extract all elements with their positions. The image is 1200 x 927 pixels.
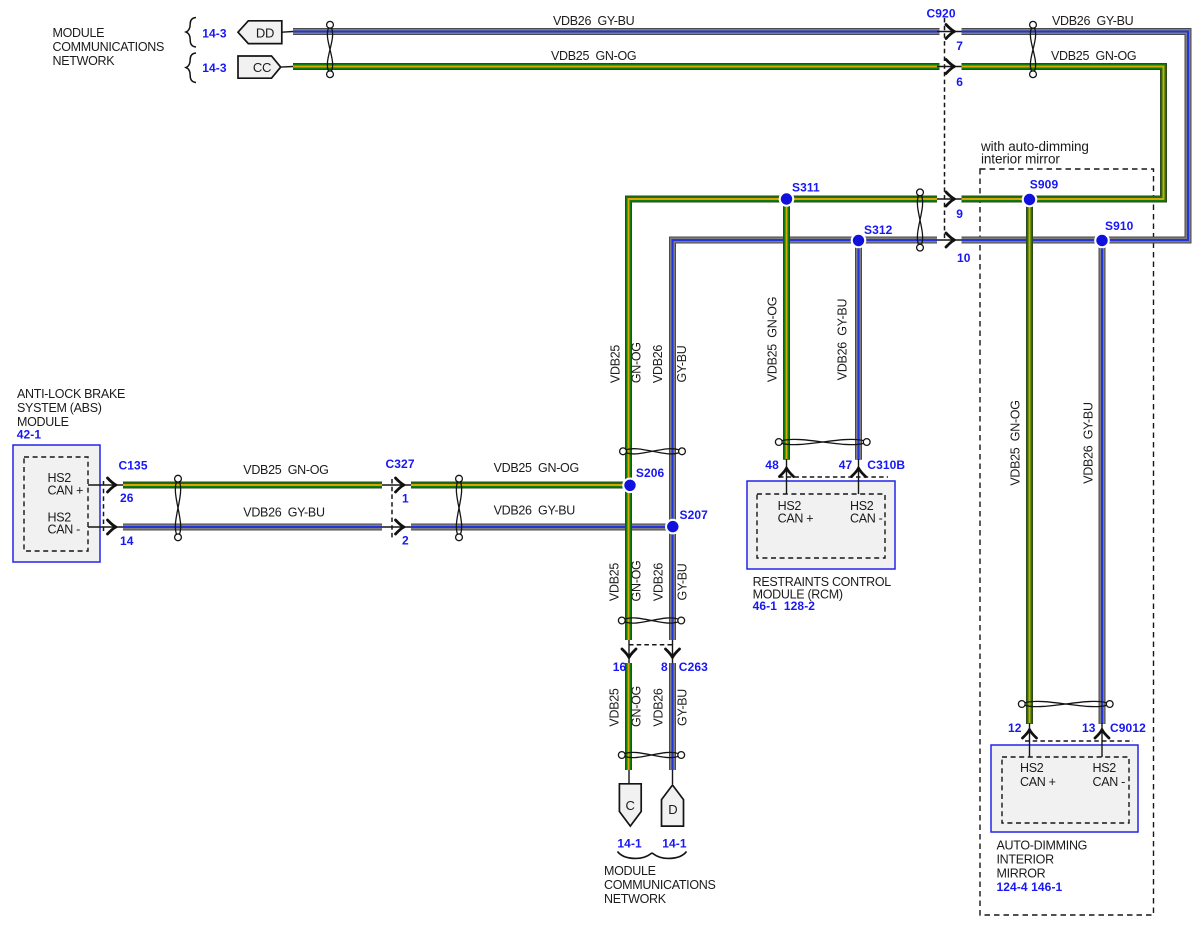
svg-text:C: C (625, 798, 634, 813)
svg-text:HS2: HS2 (1020, 761, 1044, 775)
svg-text:C327: C327 (386, 457, 415, 471)
svg-text:C9012: C9012 (1110, 721, 1146, 735)
svg-text:S206: S206 (636, 466, 665, 480)
wire lead ABS pin 14 (88, 526, 123, 528)
svg-text:CAN -: CAN - (48, 523, 81, 537)
svg-text:C920: C920 (927, 7, 956, 21)
svg-text:D: D (668, 802, 677, 817)
svg-text:14: 14 (120, 534, 134, 548)
svg-text:124-4 146-1: 124-4 146-1 (997, 880, 1063, 894)
svg-text:42-1: 42-1 (17, 427, 42, 441)
text MODULE COMMUNICATIONS NETWORK (bottom) (604, 864, 716, 906)
svg-text:NETWORK: NETWORK (53, 54, 116, 68)
twist C135 pair (175, 475, 182, 540)
arrow C327 pin 1 (396, 478, 405, 492)
text HS2 CAN + (mirror) (1020, 761, 1056, 789)
brace lower 14-3 (186, 53, 196, 83)
text HS2 CAN - (RCM) (850, 499, 883, 526)
svg-text:VDB25 GN-OG: VDB25 GN-OG (243, 463, 328, 477)
svg-text:14-1: 14-1 (662, 836, 687, 850)
arrow RCM pin 48 (up) (780, 468, 794, 477)
brace upper 14-3 (186, 18, 196, 48)
wire lead C327 pin 2 (382, 526, 411, 528)
svg-text:47: 47 (839, 458, 853, 472)
wire lead connector D (672, 770, 674, 784)
svg-text:CAN +: CAN + (1020, 775, 1056, 789)
text AUTO-DIMMING INTERIOR MIRROR (997, 839, 1088, 881)
wire lead connector C (628, 770, 630, 784)
wire lead C327 pin 1 (382, 484, 411, 486)
svg-text:C263: C263 (679, 660, 708, 674)
splice S207 (665, 519, 681, 535)
svg-text:VDB26 GY-BU: VDB26 GY-BU (494, 503, 576, 517)
text ANTI-LOCK BRAKE SYSTEM (ABS) MODULE (17, 387, 125, 429)
svg-text:GN-OG: GN-OG (630, 561, 644, 602)
wire lead RCM pin 48 (786, 459, 788, 494)
svg-text:VDB26 GY-BU: VDB26 GY-BU (553, 14, 635, 28)
svg-text:14-3: 14-3 (202, 61, 227, 75)
arrow C920 pin 10 (946, 233, 955, 247)
wire VDB25 GN-OG from CC to C920 (293, 63, 940, 70)
svg-text:VDB25: VDB25 (608, 563, 622, 601)
svg-text:MODULE: MODULE (604, 864, 656, 878)
wire VDB26 GY-BU below C263 to connector D (669, 663, 676, 770)
wire lead ABS pin 26 (88, 484, 123, 486)
arrow ABS pin 26 (108, 478, 117, 492)
wire lead C263 pin 16 (628, 640, 630, 663)
svg-text:S207: S207 (680, 508, 709, 522)
text RESTRAINTS CONTROL MODULE (RCM) (753, 575, 892, 602)
splice S909 (1022, 192, 1038, 208)
splice S311 (779, 191, 795, 207)
connector D (points up) (662, 785, 684, 826)
twist top-right pair (1030, 21, 1037, 77)
twist C327 pair (456, 475, 463, 540)
svg-text:CAN -: CAN - (1093, 775, 1126, 789)
wire VDB26 GY-BU right section C920 to corner down to y240 back to C920 (962, 32, 1189, 241)
svg-text:2: 2 (402, 534, 409, 548)
wire VDB25 GN-OG branch S909 down to mirror pin 12 (1026, 199, 1033, 724)
twist above S206 (horizontal) (620, 448, 686, 455)
wire VDB26 GY-BU from DD to C920 (293, 28, 940, 35)
svg-text:14-1: 14-1 (617, 836, 642, 850)
arrow mirror pin 12 (up) (1023, 730, 1037, 739)
svg-text:GN-OG: GN-OG (630, 342, 644, 383)
connector C310B dashed line (779, 476, 888, 478)
svg-text:VDB25 GN-OG: VDB25 GN-OG (551, 49, 636, 63)
wire VDB25 GN-OG from ABS C135 to C327 (123, 482, 382, 489)
connector C135 dashed line (103, 481, 105, 531)
arrow RCM pin 47 (up) (852, 468, 866, 477)
wire VDB25 GN-OG from C327 to S206 (411, 482, 628, 489)
svg-text:S312: S312 (864, 223, 893, 237)
svg-text:S910: S910 (1105, 219, 1134, 233)
svg-text:VDB25: VDB25 (608, 688, 622, 726)
arrow C920 pin 7 (946, 25, 955, 39)
svg-text:C310B: C310B (867, 458, 905, 472)
svg-text:CAN -: CAN - (850, 511, 883, 525)
svg-text:1: 1 (402, 492, 409, 506)
svg-text:VDB26 GY-BU: VDB26 GY-BU (836, 299, 850, 381)
wire VDB26 GY-BU from C327 to S207 (411, 524, 672, 531)
module box: ANTI-LOCK BRAKE SYSTEM (ABS) MODULE (13, 445, 100, 562)
svg-text:VDB26 GY-BU: VDB26 GY-BU (243, 505, 325, 519)
arrow C920 pin 6 (946, 60, 955, 74)
wire lead mirror pin 12 (1029, 723, 1031, 757)
twist above mirror (horizontal) (1018, 701, 1113, 708)
wire lead C263 pin 8 (672, 640, 674, 663)
module box: AUTO-DIMMING INTERIOR MIRROR (991, 745, 1138, 832)
svg-text:10: 10 (957, 251, 971, 265)
arrow C920 pin 9 (946, 192, 955, 206)
svg-text:SYSTEM (ABS): SYSTEM (ABS) (17, 401, 102, 415)
connector CC (points right) (238, 56, 281, 78)
svg-text:VDB25: VDB25 (608, 345, 622, 383)
svg-text:S311: S311 (792, 181, 820, 195)
svg-text:C135: C135 (119, 459, 148, 473)
svg-text:GY-BU: GY-BU (676, 689, 690, 726)
svg-text:COMMUNICATIONS: COMMUNICATIONS (604, 878, 716, 892)
arrow C327 pin 2 (396, 520, 405, 534)
svg-text:interior mirror: interior mirror (981, 152, 1060, 167)
svg-text:AUTO-DIMMING: AUTO-DIMMING (997, 839, 1088, 853)
svg-text:26: 26 (120, 491, 134, 505)
svg-text:S909: S909 (1030, 177, 1059, 191)
wire lead C920 pin 7 (937, 31, 962, 33)
svg-text:GY-BU: GY-BU (676, 563, 690, 600)
wire VDB25 GN-OG branch S311 down to RCM pin 48 (783, 199, 790, 460)
svg-text:MODULE: MODULE (53, 26, 105, 40)
svg-text:INTERIOR: INTERIOR (997, 852, 1055, 866)
arrow C263 pin 16 (down) (622, 649, 636, 658)
svg-text:CAN +: CAN + (48, 483, 84, 497)
svg-text:MIRROR: MIRROR (997, 866, 1046, 880)
wire VDB26 GY-BU branch S312 down to RCM pin 47 (855, 240, 862, 460)
wire VDB26 GY-BU from C920 pin10 left to corner x672 down through S207 to C263 (673, 240, 938, 640)
svg-text:VDB25 GN-OG: VDB25 GN-OG (766, 297, 780, 382)
svg-text:ANTI-LOCK BRAKE: ANTI-LOCK BRAKE (17, 387, 125, 401)
wire lead RCM pin 47 (858, 459, 860, 494)
svg-text:NETWORK: NETWORK (604, 892, 667, 906)
wire VDB26 GY-BU from ABS C135 to C327 (123, 524, 382, 531)
text HS2 CAN + (ABS) (48, 471, 84, 497)
svg-text:16: 16 (613, 660, 627, 674)
svg-text:VDB25 GN-OG: VDB25 GN-OG (1008, 400, 1022, 485)
svg-text:VDB26 GY-BU: VDB26 GY-BU (1052, 14, 1134, 28)
arrow mirror pin 13 (up) (1095, 730, 1109, 739)
wire lead C920 pin 9 (937, 198, 962, 200)
twist S311/S312 pair (917, 189, 924, 251)
svg-text:VDB25 GN-OG: VDB25 GN-OG (494, 461, 579, 475)
twist above RCM (horizontal) (775, 439, 870, 446)
splice S312 (851, 233, 867, 249)
connector C9012 dashed line (1025, 740, 1133, 742)
twist below S207 (horizontal) (618, 617, 684, 624)
connector DD (points left) (238, 21, 282, 44)
arrow C263 pin 8 (down) (666, 649, 680, 658)
svg-text:GN-OG: GN-OG (630, 686, 644, 727)
text HS2 CAN + (RCM) (778, 499, 814, 526)
wire lead DD (282, 31, 293, 34)
svg-text:DD: DD (256, 25, 274, 40)
svg-text:VDB25 GN-OG: VDB25 GN-OG (1051, 49, 1136, 63)
svg-text:VDB26 GY-BU: VDB26 GY-BU (1082, 402, 1096, 484)
svg-text:CC: CC (253, 60, 271, 75)
wire lead C920 pin 10 (937, 239, 962, 241)
splice S206 (622, 478, 638, 494)
svg-text:GY-BU: GY-BU (675, 345, 689, 382)
svg-text:7: 7 (956, 39, 963, 53)
text HS2 CAN - (mirror) (1093, 761, 1126, 789)
svg-text:CAN +: CAN + (778, 511, 814, 525)
svg-text:8: 8 (661, 660, 668, 674)
wire lead mirror pin 13 (1101, 723, 1103, 757)
svg-text:6: 6 (956, 75, 963, 89)
text MODULE COMMUNICATIONS NETWORK (top left) (53, 26, 165, 68)
connector C920 dashed line (944, 18, 946, 240)
dashed option box: with auto-dimming interior mirror (980, 169, 1154, 915)
svg-text:14-3: 14-3 (202, 27, 227, 41)
twist below C263 (horizontal) (618, 752, 684, 759)
svg-text:48: 48 (765, 458, 779, 472)
svg-text:VDB26: VDB26 (652, 563, 666, 601)
connector C327 dashed line (391, 479, 393, 539)
text HS2 CAN - (ABS) (48, 511, 81, 537)
connector C263 dashed line (629, 644, 672, 646)
svg-text:46-1 128-2: 46-1 128-2 (753, 599, 816, 613)
svg-text:HS2: HS2 (1093, 761, 1117, 775)
svg-text:COMMUNICATIONS: COMMUNICATIONS (53, 40, 165, 54)
wire VDB25 GN-OG below C263 to connector C (625, 663, 632, 770)
underbrace 14-1 pair (618, 852, 687, 859)
wire VDB26 GY-BU branch S910 down to mirror pin 13 (1099, 240, 1106, 724)
wire VDB25 GN-OG right section C920 to corner down to y199 back to C920 (962, 67, 1164, 200)
arrow ABS pin 14 (108, 520, 117, 534)
svg-text:12: 12 (1008, 721, 1022, 735)
svg-text:VDB26: VDB26 (651, 345, 665, 383)
connector C (points down) (619, 784, 641, 826)
text with auto-dimming interior mirror (980, 139, 1089, 166)
module box: RESTRAINTS CONTROL MODULE (RCM) (747, 481, 895, 569)
wire VDB25 GN-OG from C920 pin9 left through S311 corner x628.5 down through S206 to C263 (629, 199, 938, 640)
svg-text:13: 13 (1082, 721, 1096, 735)
twist top-left pair (327, 21, 334, 77)
wire lead CC (281, 66, 293, 69)
svg-text:VDB26: VDB26 (652, 688, 666, 726)
svg-text:9: 9 (956, 207, 963, 221)
wire lead C920 pin 6 (937, 66, 962, 68)
splice S910 (1094, 233, 1110, 249)
